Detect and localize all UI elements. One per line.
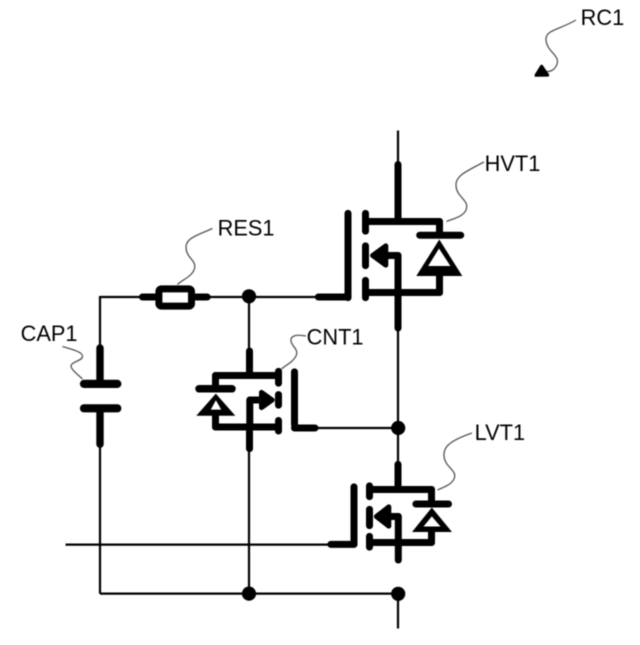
drain contact line to diode (366, 218, 440, 225)
drain lead (395, 464, 402, 489)
source contact line to diode (216, 424, 279, 431)
svg-text:LVT1: LVT1 (475, 420, 525, 445)
wire: bottom output stub (397, 594, 399, 629)
wire: node A down to CNT1 drain (248, 297, 250, 353)
gate lead (318, 294, 348, 301)
wire: HVT1 source down to LVT1 drain (397, 330, 399, 464)
wire: CNT1 gate to node B (317, 427, 398, 429)
body arrow head (262, 392, 273, 407)
transistor LVT1 (low-voltage MOSFET with body diode) (331, 464, 452, 560)
body vertical (395, 517, 402, 543)
junction dot bottom rail / LVT1 source (391, 587, 405, 601)
wire: LVT1 gate row (66, 543, 332, 545)
gate bar (351, 487, 358, 544)
wire: CNT1 source to bottom rail (248, 450, 250, 594)
body diode top lead (436, 222, 443, 234)
body diode triangle (412, 508, 452, 533)
wire: main row right segment (RES1 to HVT1 gate) (209, 296, 317, 298)
gate lead (295, 425, 316, 432)
body diode top lead (428, 490, 435, 502)
body diode top lead (212, 376, 219, 386)
body diode cathode bar (420, 232, 461, 239)
body diode bottom lead (428, 531, 435, 543)
body arrow head (373, 246, 386, 265)
channel dash body (362, 246, 369, 266)
drain contact line to diode (370, 486, 432, 493)
transistor CNT1 (control MOSFET, mirrored, with body diode) (196, 351, 315, 449)
gate lead (331, 541, 354, 548)
body diode triangle (416, 240, 462, 277)
body diode cathode bar (199, 385, 232, 393)
svg-text:HVT1: HVT1 (485, 151, 541, 176)
source lead (395, 543, 402, 561)
leader line for CAP1 (63, 347, 83, 380)
gate bar (345, 213, 352, 297)
wire: top drain wire of HVT1 (397, 131, 399, 171)
body arrow shaft (250, 397, 262, 404)
wire: left column upper (to CAP1 top) (99, 296, 101, 346)
channel dash body (275, 395, 282, 406)
leader line for RES1 (178, 229, 213, 285)
body vertical (246, 400, 253, 427)
resistor RES1 (143, 289, 208, 306)
svg-text:RC1: RC1 (581, 5, 625, 30)
junction dot bottom rail / CNT1 source (242, 587, 256, 601)
leader line for RC1 (546, 20, 576, 72)
svg-text:CAP1: CAP1 (21, 321, 78, 346)
wire: left column lower (CAP1 bottom to bottom rail) (99, 446, 101, 594)
body diode triangle (196, 394, 235, 416)
leader line for HVT1 (447, 162, 485, 222)
source contact line to diode (370, 539, 432, 546)
channel dash drain (362, 213, 369, 231)
svg-text:RES1: RES1 (218, 215, 275, 240)
drain lead (246, 351, 253, 376)
source lead (246, 427, 253, 449)
source vertical (395, 256, 402, 329)
channel dash drain (275, 371, 282, 383)
body diode cathode bar (416, 501, 449, 508)
transistor HVT1 (high-voltage MOSFET with body diode) (318, 165, 462, 329)
gate bar (291, 372, 298, 425)
arrowhead of RC1 leader (536, 66, 548, 75)
drain contact line to diode (216, 372, 279, 379)
node A junction dot (RES1 / CNT1 drain) (242, 289, 256, 303)
wire: main row left segment (CAP1 corner to RES1) (100, 296, 142, 298)
body arrow shaft (388, 513, 398, 520)
channel dash drain (366, 486, 373, 497)
channel dash source (275, 421, 282, 432)
svg-text:CNT1: CNT1 (307, 324, 364, 349)
channel dash body (366, 509, 373, 525)
source contact line to diode (366, 289, 440, 296)
node B junction dot (CNT1 gate / HVT1 source) (391, 421, 405, 435)
body arrow shaft (384, 252, 398, 259)
wire: bottom rail (100, 592, 398, 594)
channel dash source (362, 280, 369, 297)
capacitor CAP1 (84, 348, 117, 444)
channel dash source (366, 536, 373, 547)
leader line for LVT1 (438, 433, 473, 490)
body arrow head (376, 507, 388, 526)
body diode bottom lead (436, 274, 443, 293)
leader line for CNT1 (282, 335, 307, 369)
drain lead (395, 165, 402, 222)
body diode bottom lead (212, 415, 219, 428)
